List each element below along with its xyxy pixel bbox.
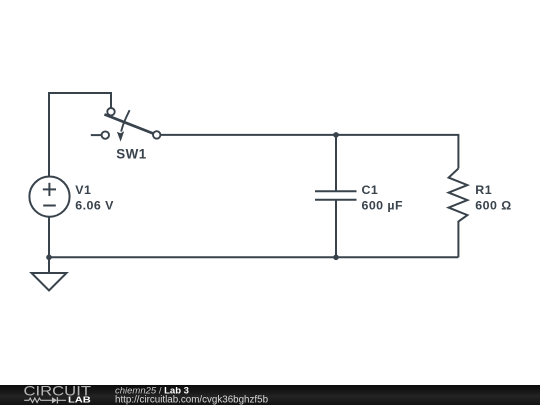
voltage source V1 <box>29 177 69 217</box>
wire ground stem <box>48 257 50 273</box>
node junction dot at V1/ground <box>46 254 52 260</box>
svg-text:6.06 V: 6.06 V <box>75 199 114 213</box>
label C1 value <box>362 183 404 213</box>
svg-text:600 Ω: 600 Ω <box>475 199 511 213</box>
wire from V1 bottom to bottom rail junction <box>48 217 50 258</box>
wire from SW1 right throw across top to R1 <box>160 135 458 169</box>
svg-text:SW1: SW1 <box>116 147 147 162</box>
node junction dot at SW1/C1 top rail <box>333 132 339 138</box>
wire C1 bottom lead <box>335 200 337 257</box>
wire from V1 top up and across to SW1 common <box>49 93 111 177</box>
switch actuator arrow <box>121 110 129 131</box>
svg-text:V1: V1 <box>75 183 91 197</box>
svg-text:C1: C1 <box>362 183 379 197</box>
logo resistor squiggle <box>24 398 52 402</box>
wire C1 top lead <box>335 135 337 191</box>
node junction dot at C1 bottom rail <box>333 254 339 260</box>
label R1 value <box>475 183 511 213</box>
svg-text:http://circuitlab.com/cvgk36bg: http://circuitlab.com/cvgk36bghzf5b <box>115 395 269 405</box>
wire bottom rail <box>49 256 458 258</box>
label V1 value <box>75 183 114 213</box>
svg-text:R1: R1 <box>475 183 492 197</box>
svg-text:LAB: LAB <box>68 394 91 404</box>
logo diode <box>52 397 57 403</box>
svg-text:600 µF: 600 µF <box>362 199 404 213</box>
ground <box>32 273 67 291</box>
capacitor C1 <box>315 191 357 200</box>
footer bar <box>0 385 540 405</box>
switch SW1 <box>91 108 161 139</box>
resistor R1 <box>449 169 468 258</box>
